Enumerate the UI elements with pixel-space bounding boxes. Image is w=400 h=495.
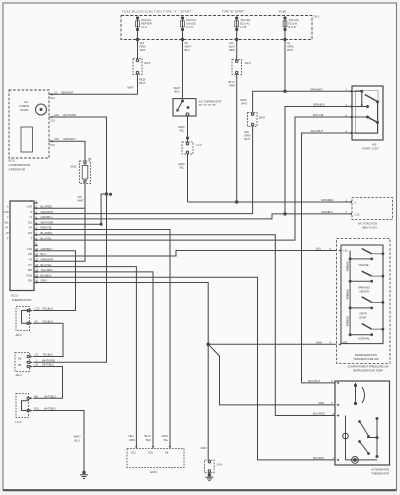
svg-text:OPERATOR: OPERATOR	[9, 168, 26, 172]
svg-text:C1S: C1S	[27, 247, 32, 251]
svg-text:STATE: STATE	[20, 108, 28, 112]
svg-text:C13: C13	[343, 249, 348, 253]
svg-text:BLU: BLU	[75, 439, 80, 443]
svg-text:ECU: ECU	[9, 159, 15, 163]
svg-text:C18: C18	[4, 210, 9, 214]
svg-text:BLK: BLK	[146, 438, 151, 442]
svg-text:WHT: WHT	[140, 48, 146, 52]
svg-text:BLU: BLU	[185, 48, 190, 52]
svg-text:Y0: Y0	[29, 258, 33, 262]
svg-text:WHT: WHT	[241, 102, 247, 106]
svg-text:12: 12	[35, 258, 38, 262]
ECU pin 11	[28, 252, 46, 257]
svg-text:GRN/WHT: GRN/WHT	[41, 210, 54, 214]
svg-text:GRN/WHT: GRN/WHT	[310, 87, 323, 91]
ECU pin 13	[28, 263, 52, 268]
svg-text:GRN/WHT: GRN/WHT	[63, 137, 76, 141]
svg-text:C.C.U: C.C.U	[186, 25, 193, 29]
ECU pin 8	[30, 236, 52, 241]
svg-text:Y1: Y1	[29, 215, 33, 219]
svg-text:WHT: WHT	[244, 137, 250, 141]
refrigeration temperature switch box (dashed)	[337, 239, 391, 364]
svg-text:RED/: RED/	[140, 45, 147, 49]
svg-text:15A H/G: 15A H/G	[289, 18, 299, 22]
svg-text:BLU/BLK: BLU/BLK	[313, 456, 324, 460]
relay block box3 LA-4	[16, 394, 33, 418]
svg-text:WHT/GRN: WHT/GRN	[42, 359, 55, 363]
svg-text:C8-1: C8-1	[314, 15, 320, 19]
wire JW11 to ECU pin12	[34, 184, 85, 262]
wire ECU pin2 stub	[34, 207, 85, 209]
svg-text:WHT: WHT	[78, 199, 84, 203]
svg-text:MR: MR	[28, 268, 32, 272]
svg-text:C16: C16	[54, 113, 59, 117]
svg-text:GN: GN	[28, 279, 32, 283]
svg-text:THERMISTOR: THERMISTOR	[371, 472, 389, 476]
svg-text:DEFR: DEFR	[360, 312, 367, 316]
svg-text:W1: W1	[4, 220, 9, 224]
fuse F1 HEATER	[136, 17, 140, 31]
net GRN/BLU: ECU pin4 - VSV pin2 - start switch pin2	[34, 107, 352, 219]
svg-text:CRUISE: CRUISE	[358, 263, 368, 267]
svg-text:WHT: WHT	[128, 86, 134, 90]
svg-text:WHT/BLU: WHT/BLU	[44, 394, 56, 398]
connector JW-8	[248, 113, 258, 127]
svg-text:AE-2: AE-2	[16, 373, 22, 377]
svg-text:BLU/: BLU/	[229, 80, 235, 84]
svg-text:JW-8: JW-8	[259, 116, 266, 120]
svg-text:LT-3: LT-3	[197, 143, 203, 147]
net ECU pin14 to ECM wire2	[34, 272, 153, 449]
svg-text:WHT/: WHT/	[74, 435, 81, 439]
svg-text:S6: S6	[185, 41, 189, 45]
svg-text:YEL/BLU: YEL/BLU	[42, 307, 53, 311]
svg-text:BLU/RED: BLU/RED	[41, 205, 53, 209]
svg-text:GRN/BLU: GRN/BLU	[41, 215, 53, 219]
svg-text:C14: C14	[50, 96, 55, 100]
svg-text:GRN/BLU: GRN/BLU	[313, 103, 325, 107]
svg-text:THERMOSTAT: THERMOSTAT	[12, 298, 32, 302]
svg-text:I.C.B: I.C.B	[240, 25, 246, 29]
svg-text:A/C: A/C	[24, 100, 29, 104]
net ECU pin16 GRN: temperature switch pin, alternator pin3, ground LR-4	[34, 283, 337, 461]
svg-text:COMPARTMENT PRESSURE SW: COMPARTMENT PRESSURE SW	[347, 364, 389, 368]
compressor pin C10 wire (GRN/WHT) to JW11	[49, 140, 85, 161]
svg-text:ECU-B: ECU-B	[289, 22, 298, 26]
svg-text:A19: A19	[148, 451, 153, 455]
ECU pin 12	[29, 258, 54, 263]
ECU pin 3	[30, 210, 53, 215]
svg-text:TEMPERATURE SW: TEMPERATURE SW	[353, 357, 379, 361]
svg-text:C5: C5	[35, 353, 39, 357]
wire fuse F1 to compressor pin C1 (RED/WHT)	[53, 30, 139, 95]
ECU thermostat amplifier box U1	[4, 201, 34, 291]
svg-text:PARKING: PARKING	[358, 286, 370, 290]
svg-text:AT: AT	[29, 226, 33, 230]
svg-text:I.C.U: I.C.U	[141, 25, 147, 29]
svg-text:414: 414	[140, 41, 145, 45]
svg-text:OY: OY	[28, 263, 32, 267]
svg-text:RED: RED	[230, 84, 236, 88]
net BLU/WHT: start switch pin4 - alternator pin4	[302, 133, 353, 383]
svg-text:RED: RED	[319, 401, 325, 405]
svg-text:GRN/: GRN/	[244, 134, 251, 138]
ECU pin 1	[30, 199, 37, 204]
svg-text:AT: AT	[5, 226, 9, 230]
ECU pin 16	[28, 279, 47, 284]
fuse F4 ECU-B	[283, 17, 287, 31]
connector LR-4 and ground G1	[205, 460, 215, 481]
resistor JW11	[80, 161, 91, 184]
svg-text:A: A	[7, 205, 9, 209]
net WHT/GRN branch: junction to pin5/pin6 rows	[34, 194, 107, 225]
net ECU pin7 to alternator pin2 (BLU/RED)	[34, 235, 335, 416]
svg-text:HEATER: HEATER	[141, 22, 152, 26]
svg-text:REFRIGERATION TEMP: REFRIGERATION TEMP	[353, 368, 383, 372]
svg-text:YEL/: YEL/	[128, 434, 134, 438]
svg-text:W1: W1	[28, 220, 33, 224]
fuse F2 GAUGE	[181, 17, 185, 31]
svg-text:GRN/WHT: GRN/WHT	[41, 258, 54, 262]
svg-text:GAUGE: GAUGE	[186, 22, 196, 26]
svg-text:A/C THERMOSTAT: A/C THERMOSTAT	[199, 100, 223, 104]
svg-text:WHT/: WHT/	[185, 45, 192, 49]
svg-text:"D" "A" "N" "B": "D" "A" "N" "B"	[199, 103, 216, 107]
svg-text:YEL: YEL	[179, 166, 185, 170]
ECU pin 14	[28, 268, 53, 273]
ECU pin stubs and numbers	[26, 199, 53, 284]
svg-text:VIO: VIO	[78, 195, 83, 199]
connector JW-6 on fuse1 wire	[133, 59, 142, 75]
fuse box title text	[122, 9, 320, 18]
svg-text:RED: RED	[229, 48, 235, 52]
ECU pin 9	[34, 242, 38, 247]
ECU pin 6	[29, 226, 53, 231]
svg-text:BLU/RED: BLU/RED	[313, 412, 325, 416]
svg-text:AE: AE	[18, 357, 22, 361]
svg-text:C10: C10	[50, 143, 55, 147]
wire fuse F2 to A/C thermostat (WHT/BLU)	[181, 30, 183, 99]
net ECU pin13 to ECM wire1	[34, 267, 136, 449]
connector LT-3 on thermostat wire	[182, 142, 193, 154]
wire box3 pin2 to ground G2 (WHT/BLU)	[33, 411, 88, 479]
svg-text:YEL/BLU: YEL/BLU	[42, 353, 53, 357]
net ECU pin15 to alternator pin1 (BLU/BLK)	[34, 277, 335, 460]
svg-text:GRN: GRN	[201, 446, 207, 450]
net ECU pin6 to ECM wire3	[34, 230, 170, 449]
ECU pin 2	[27, 205, 53, 210]
svg-text:GRN/RED: GRN/RED	[321, 198, 333, 202]
wire box1 pin2 to box2 pin1 (YEL/BLU)	[33, 323, 63, 356]
svg-text:BLU/WHT: BLU/WHT	[311, 129, 323, 133]
connector JW-6 on fuse3 wire	[232, 59, 242, 74]
net GRN/WHT: ECU pin3 - JW-8 - start switch pin 1	[34, 91, 352, 213]
svg-text:FUSE BLOCK/JUNCTION TYPE "A": FUSE BLOCK/JUNCTION TYPE "A" "START"	[122, 9, 193, 13]
svg-text:BLU/: BLU/	[229, 45, 235, 49]
svg-text:GRN/: GRN/	[162, 434, 169, 438]
svg-text:BLU/: BLU/	[145, 434, 151, 438]
svg-text:C10: C10	[54, 137, 59, 141]
svg-text:C16: C16	[50, 119, 55, 123]
svg-text:C13: C13	[355, 213, 360, 217]
svg-text:LR-4: LR-4	[217, 463, 223, 467]
svg-text:YEL: YEL	[163, 438, 169, 442]
svg-text:W1: W1	[28, 231, 33, 235]
svg-text:ALTERNATOR: ALTERNATOR	[371, 468, 389, 472]
ECU pin 5	[28, 220, 53, 225]
svg-text:JW-6: JW-6	[144, 61, 151, 65]
svg-text:15A H/G: 15A H/G	[186, 18, 196, 22]
svg-text:COMPR: COMPR	[19, 104, 29, 108]
ECM box (dashed) bottom	[127, 446, 184, 468]
fuse block junction box	[121, 16, 312, 40]
wire box2 pin3 to box3 pin1 (WHT/BLU)	[33, 367, 63, 399]
svg-text:C1: C1	[54, 90, 58, 94]
svg-text:C13: C13	[35, 307, 40, 311]
compressor pin C1 wire (RED/WHT)	[49, 93, 53, 96]
svg-text:B.C.B: B.C.B	[289, 25, 296, 29]
svg-text:BLU/WHT: BLU/WHT	[308, 379, 320, 383]
svg-text:BLU: BLU	[316, 247, 321, 251]
svg-text:JW11: JW11	[70, 165, 77, 169]
wire thermostat to junction (GRN/YEL)	[187, 116, 237, 202]
svg-text:S5: S5	[88, 157, 92, 161]
svg-text:AE-2: AE-2	[16, 333, 22, 337]
svg-text:15A H/G: 15A H/G	[141, 18, 151, 22]
svg-text:A/S: A/S	[372, 143, 377, 147]
svg-text:FUSE: FUSE	[279, 9, 286, 13]
compressor pin C16 wire (WHT/GRN) to box2 pin	[33, 116, 112, 363]
svg-text:LA-4: LA-4	[16, 420, 22, 424]
svg-text:MDL: MDL	[343, 341, 349, 345]
svg-text:WHT/: WHT/	[174, 86, 181, 90]
svg-text:GRN/: GRN/	[178, 162, 185, 166]
svg-text:C1R: C1R	[27, 205, 32, 209]
svg-text:P: P	[30, 210, 32, 214]
svg-text:414: 414	[229, 41, 234, 45]
wire junction to A/C VSV pin 1 (GRN/RED)	[237, 201, 352, 203]
svg-text:EVAP: EVAP	[360, 316, 367, 320]
ECU pin 4	[29, 215, 53, 220]
alternator thermistor box	[335, 381, 390, 465]
svg-text:GRN: GRN	[129, 438, 135, 442]
ECU pin 15	[26, 273, 51, 278]
A/C start switch box U2	[349, 86, 383, 140]
relay block box2 AE-2	[15, 353, 33, 372]
svg-text:BLU/YEL: BLU/YEL	[313, 113, 325, 117]
svg-text:BLU: BLU	[175, 90, 180, 94]
svg-text:A: A	[30, 199, 32, 203]
svg-text:ECU: ECU	[12, 294, 18, 298]
svg-text:GN: GN	[28, 252, 32, 256]
svg-text:Y: Y	[7, 215, 9, 219]
svg-text:COMPRESSOR: COMPRESSOR	[9, 163, 32, 167]
ECU compressor box (dashed) with motor	[9, 90, 49, 158]
svg-text:A6: A6	[165, 451, 169, 455]
relay block box1 AE-2	[16, 307, 33, 331]
svg-text:15A H/G: 15A H/G	[240, 18, 250, 22]
wire fuse F3 down to junction (BLU/RED)	[236, 30, 238, 204]
svg-text:BLU/YEL: BLU/YEL	[41, 236, 53, 240]
svg-text:A/C FUNCTION: A/C FUNCTION	[358, 222, 377, 226]
svg-text:RED/WHT: RED/WHT	[61, 90, 74, 94]
svg-text:NORMAL: NORMAL	[358, 337, 370, 341]
net BLU/YEL: ECU pin8 - start switch pin3	[34, 117, 352, 240]
svg-text:WHT/GRN: WHT/GRN	[63, 113, 76, 117]
svg-text:WHT: WHT	[287, 48, 293, 52]
svg-text:RED/: RED/	[139, 78, 146, 82]
A/C thermostat switch box	[173, 99, 196, 116]
net ECU pin10 to relay block box1 (YEL/BLU)	[33, 251, 76, 311]
svg-text:GRN/BLU: GRN/BLU	[321, 210, 333, 214]
svg-text:2B: 2B	[18, 363, 21, 367]
svg-text:B6: B6	[35, 394, 39, 398]
svg-text:GRN/: GRN/	[178, 125, 185, 129]
svg-text:TYPE "B" "START": TYPE "B" "START"	[222, 9, 245, 13]
svg-text:A21: A21	[131, 451, 136, 455]
svg-text:WHT: WHT	[139, 81, 145, 85]
svg-text:METER: METER	[360, 290, 369, 294]
net ECU pin11 to temperature switch (BLU)	[34, 251, 337, 257]
svg-text:GRN/: GRN/	[287, 45, 294, 49]
svg-text:GRN: GRN	[316, 340, 322, 344]
svg-text:S16: S16	[244, 130, 249, 134]
svg-text:YEL: YEL	[179, 129, 185, 133]
svg-text:ECU-IG: ECU-IG	[240, 22, 249, 26]
svg-text:GRN/: GRN/	[240, 98, 247, 102]
A/C VSV box	[349, 198, 393, 220]
svg-text:(MELT) VSV: (MELT) VSV	[362, 226, 377, 230]
svg-text:S1: S1	[287, 41, 291, 45]
wire fuse F4 down to GRN/WHT net	[284, 30, 286, 93]
fuse F3 ECU-IG	[235, 17, 239, 31]
svg-text:GN0: GN0	[26, 273, 32, 277]
svg-text:ECM: ECM	[151, 470, 158, 474]
ECU pin 7	[28, 231, 52, 236]
ECU pin 10	[27, 247, 53, 252]
svg-text:JW-6: JW-6	[245, 61, 252, 65]
svg-text:START CONT: START CONT	[362, 147, 379, 151]
svg-text:REFRIGERATION: REFRIGERATION	[355, 353, 377, 357]
